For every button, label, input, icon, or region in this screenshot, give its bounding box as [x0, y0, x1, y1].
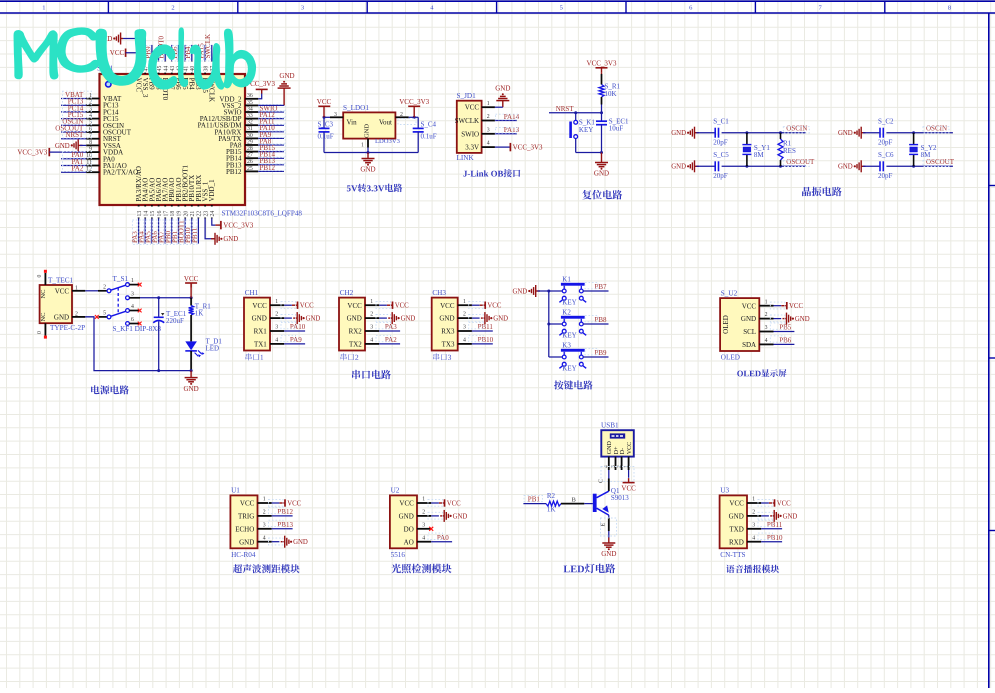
- svg-text:KEY: KEY: [579, 126, 593, 134]
- svg-text:1K: 1K: [547, 505, 556, 513]
- svg-text:15: 15: [150, 211, 156, 217]
- svg-text:GND: GND: [512, 288, 527, 295]
- svg-text:25: 25: [247, 166, 253, 172]
- svg-text:VCC: VCC: [440, 302, 455, 310]
- svg-text:2: 2: [765, 312, 768, 318]
- svg-text:0.1uF: 0.1uF: [421, 133, 437, 141]
- svg-text:26: 26: [247, 159, 253, 165]
- svg-text:3: 3: [752, 522, 755, 528]
- svg-text:TRIG: TRIG: [238, 513, 254, 521]
- svg-text:VCC: VCC: [252, 302, 267, 310]
- svg-text:1: 1: [370, 299, 373, 305]
- svg-text:1: 1: [42, 5, 45, 12]
- svg-text:SWCLK: SWCLK: [455, 117, 480, 125]
- svg-text:1K: 1K: [195, 310, 204, 318]
- svg-text:2: 2: [487, 114, 490, 120]
- svg-text:GND: GND: [184, 385, 199, 393]
- svg-text:4: 4: [370, 338, 373, 344]
- svg-text:RX3: RX3: [441, 328, 455, 336]
- svg-text:1: 1: [765, 299, 768, 305]
- svg-text:PA3: PA3: [385, 323, 397, 331]
- svg-text:35: 35: [247, 100, 253, 106]
- svg-text:19: 19: [177, 211, 183, 217]
- svg-text:Vout: Vout: [379, 119, 392, 127]
- svg-text:PB11: PB11: [478, 323, 494, 331]
- svg-text:K1: K1: [562, 275, 571, 283]
- svg-text:LDO3V3: LDO3V3: [375, 138, 401, 145]
- svg-text:1: 1: [752, 497, 755, 503]
- svg-text:38: 38: [203, 66, 209, 72]
- svg-text:44: 44: [163, 66, 169, 72]
- svg-text:0: 0: [37, 275, 43, 278]
- svg-text:0.1uF: 0.1uF: [318, 133, 334, 141]
- svg-text:GND: GND: [239, 538, 254, 546]
- svg-text:PA9: PA9: [290, 336, 302, 344]
- svg-text:OLED: OLED: [721, 354, 740, 362]
- svg-text:PA2/TX/AO: PA2/TX/AO: [103, 169, 138, 177]
- svg-text:3: 3: [131, 291, 134, 297]
- svg-text:43: 43: [170, 66, 176, 72]
- svg-text:PA2: PA2: [385, 336, 397, 344]
- svg-text:28: 28: [247, 146, 253, 152]
- svg-text:GND: GND: [783, 513, 798, 520]
- svg-text:10K: 10K: [605, 90, 617, 98]
- svg-text:1: 1: [263, 497, 266, 503]
- svg-text:C: C: [598, 479, 604, 483]
- svg-text:GND: GND: [495, 85, 510, 93]
- svg-text:2: 2: [752, 510, 755, 516]
- svg-text:3: 3: [275, 325, 278, 331]
- svg-text:2: 2: [263, 510, 266, 516]
- svg-text:U1: U1: [231, 487, 240, 495]
- svg-text:NC: NC: [40, 312, 47, 321]
- svg-text:3: 3: [370, 325, 373, 331]
- svg-text:20pF: 20pF: [878, 139, 893, 147]
- svg-text:T_S1: T_S1: [113, 275, 129, 283]
- svg-text:GND: GND: [741, 315, 756, 323]
- svg-text:OSCOUT: OSCOUT: [786, 158, 815, 166]
- svg-text:1: 1: [422, 497, 425, 503]
- svg-text:PB12: PB12: [277, 508, 293, 516]
- svg-text:SWIO: SWIO: [461, 130, 479, 138]
- svg-text:34: 34: [247, 106, 253, 112]
- svg-text:33: 33: [247, 113, 253, 119]
- svg-text:TXD: TXD: [729, 525, 743, 533]
- svg-text:20: 20: [183, 211, 189, 217]
- svg-text:NRST: NRST: [556, 105, 575, 113]
- svg-text:VCC_3V3: VCC_3V3: [17, 149, 47, 157]
- svg-text:S_C6: S_C6: [878, 151, 894, 159]
- svg-text:KEY: KEY: [562, 299, 576, 307]
- svg-text:3: 3: [487, 127, 490, 133]
- svg-text:4: 4: [422, 535, 425, 541]
- svg-text:PB7: PB7: [595, 283, 608, 291]
- svg-text:3.3V: 3.3V: [465, 144, 479, 152]
- svg-text:2: 2: [103, 284, 106, 290]
- svg-text:S_U2: S_U2: [721, 289, 738, 297]
- svg-text:LINK: LINK: [457, 154, 475, 162]
- svg-text:STM32F103C8T6_LQFP48: STM32F103C8T6_LQFP48: [222, 210, 303, 218]
- svg-text:S_C2: S_C2: [878, 118, 894, 126]
- svg-text:8M: 8M: [754, 151, 765, 159]
- svg-text:GND: GND: [347, 315, 362, 323]
- svg-text:S_KF1 DIP-8X8: S_KF1 DIP-8X8: [113, 325, 162, 333]
- svg-text:ECHO: ECHO: [235, 525, 254, 533]
- svg-text:VCC: VCC: [184, 275, 199, 283]
- svg-text:D-: D-: [620, 448, 626, 454]
- svg-text:K2: K2: [562, 308, 571, 316]
- svg-text:D+: D+: [614, 446, 620, 454]
- svg-text:23: 23: [203, 211, 209, 217]
- svg-text:GND: GND: [293, 539, 308, 546]
- svg-text:VCC: VCC: [347, 302, 362, 310]
- svg-text:GND: GND: [838, 130, 853, 137]
- svg-text:2: 2: [422, 510, 425, 516]
- svg-text:4: 4: [131, 304, 134, 310]
- svg-text:VCC: VCC: [287, 500, 301, 507]
- svg-text:U2: U2: [391, 487, 400, 495]
- svg-text:S_C4: S_C4: [421, 121, 437, 129]
- svg-text:14: 14: [143, 211, 149, 217]
- svg-text:3: 3: [422, 522, 425, 528]
- svg-text:GND: GND: [594, 170, 609, 178]
- svg-text:GND: GND: [401, 316, 416, 323]
- svg-text:VCC_3V3: VCC_3V3: [587, 60, 617, 68]
- svg-text:CH1: CH1: [245, 289, 259, 297]
- svg-text:21: 21: [190, 211, 196, 217]
- svg-text:4: 4: [263, 535, 266, 541]
- svg-text:2: 2: [463, 312, 466, 318]
- svg-text:HC-R04: HC-R04: [231, 551, 256, 559]
- svg-text:VCC: VCC: [742, 302, 757, 310]
- svg-text:T_TEC1: T_TEC1: [48, 276, 74, 284]
- svg-text:PB12: PB12: [226, 168, 242, 176]
- svg-text:VCC: VCC: [317, 98, 332, 106]
- svg-text:10uF: 10uF: [609, 125, 624, 133]
- svg-text:0: 0: [37, 331, 43, 334]
- svg-text:KEY: KEY: [562, 332, 576, 340]
- svg-text:GND: GND: [439, 315, 454, 323]
- svg-text:VCC: VCC: [447, 500, 461, 507]
- svg-text:GND: GND: [223, 236, 238, 243]
- svg-text:1: 1: [361, 143, 364, 149]
- svg-text:8: 8: [89, 140, 92, 146]
- svg-text:31: 31: [247, 126, 253, 132]
- svg-text:3: 3: [765, 325, 768, 331]
- svg-text:VCC_3V3: VCC_3V3: [399, 98, 429, 106]
- svg-text:NC: NC: [40, 289, 47, 298]
- svg-text:GND: GND: [363, 124, 370, 138]
- svg-text:4: 4: [463, 338, 466, 344]
- svg-text:VCC: VCC: [627, 442, 633, 454]
- svg-text:RES: RES: [783, 147, 796, 155]
- svg-text:GND: GND: [306, 316, 321, 323]
- svg-text:16: 16: [157, 211, 163, 217]
- svg-text:USB1: USB1: [601, 422, 619, 430]
- svg-text:B: B: [572, 496, 577, 503]
- svg-text:3: 3: [463, 325, 466, 331]
- svg-text:GND: GND: [360, 166, 375, 174]
- svg-text:VCC: VCC: [399, 500, 414, 508]
- svg-text:22: 22: [197, 211, 203, 217]
- svg-text:LED: LED: [206, 345, 220, 353]
- svg-text:Vin: Vin: [347, 119, 358, 127]
- svg-text:VCC: VCC: [300, 303, 314, 310]
- svg-text:VCC_3V3: VCC_3V3: [223, 222, 253, 230]
- svg-text:PB10: PB10: [767, 534, 783, 542]
- svg-text:CH2: CH2: [340, 289, 354, 297]
- svg-text:5516: 5516: [391, 551, 406, 559]
- svg-text:RXD: RXD: [729, 538, 744, 546]
- svg-text:TX3: TX3: [442, 341, 455, 349]
- svg-text:VCC: VCC: [487, 303, 501, 310]
- svg-text:GND: GND: [671, 130, 686, 137]
- svg-text:PA0: PA0: [437, 534, 449, 542]
- svg-text:OSCIN: OSCIN: [926, 125, 947, 133]
- svg-text:VCC: VCC: [777, 500, 791, 507]
- svg-text:PB1: PB1: [528, 495, 541, 503]
- svg-text:PA10: PA10: [290, 323, 306, 331]
- svg-text:GND: GND: [493, 316, 508, 323]
- svg-text:CH3: CH3: [432, 289, 446, 297]
- svg-text:GND: GND: [54, 313, 69, 321]
- svg-text:VCC: VCC: [110, 49, 125, 57]
- svg-text:2: 2: [171, 5, 174, 12]
- svg-text:20pF: 20pF: [878, 172, 893, 180]
- svg-text:30: 30: [247, 133, 253, 139]
- svg-text:GND: GND: [729, 513, 744, 521]
- svg-text:27: 27: [247, 153, 253, 159]
- svg-text:S_C5: S_C5: [713, 151, 729, 159]
- svg-text:PB11: PB11: [767, 521, 783, 529]
- svg-text:29: 29: [247, 139, 253, 145]
- svg-text:32: 32: [247, 120, 253, 126]
- svg-text:PB8: PB8: [595, 316, 608, 324]
- svg-text:S_C3: S_C3: [318, 121, 334, 129]
- svg-text:VCC: VCC: [789, 303, 803, 310]
- svg-text:13: 13: [137, 211, 143, 217]
- svg-text:GND: GND: [55, 143, 70, 150]
- svg-text:3: 3: [301, 5, 304, 12]
- svg-text:6: 6: [131, 317, 134, 323]
- svg-text:VCC_3V3: VCC_3V3: [513, 144, 543, 152]
- svg-text:GND: GND: [279, 72, 294, 80]
- svg-text:2: 2: [370, 312, 373, 318]
- svg-text:VCC: VCC: [240, 500, 255, 508]
- svg-text:GND: GND: [671, 164, 686, 171]
- svg-text:PB5: PB5: [779, 324, 792, 332]
- svg-text:41: 41: [183, 66, 189, 72]
- svg-text:3: 3: [263, 522, 266, 528]
- svg-text:1: 1: [275, 299, 278, 305]
- svg-text:PB13: PB13: [277, 521, 293, 529]
- svg-text:220uF: 220uF: [166, 317, 184, 325]
- svg-text:PB9: PB9: [595, 349, 608, 357]
- svg-text:4: 4: [275, 338, 278, 344]
- svg-text:4: 4: [765, 338, 768, 344]
- svg-text:4: 4: [752, 535, 755, 541]
- svg-text:VCC: VCC: [395, 303, 409, 310]
- svg-text:K3: K3: [562, 341, 571, 349]
- svg-text:SDA: SDA: [742, 341, 756, 349]
- svg-text:RX1: RX1: [254, 328, 268, 336]
- svg-text:8: 8: [948, 5, 951, 12]
- svg-text:E: E: [600, 523, 606, 527]
- svg-text:20pF: 20pF: [713, 172, 728, 180]
- svg-text:TX2: TX2: [349, 341, 362, 349]
- svg-text:GND: GND: [453, 513, 468, 520]
- svg-text:1: 1: [463, 299, 466, 305]
- svg-text:U3: U3: [720, 487, 729, 495]
- svg-text:GND: GND: [601, 550, 616, 558]
- svg-text:S_LDO1: S_LDO1: [343, 104, 369, 112]
- svg-text:KEY: KEY: [562, 365, 576, 373]
- svg-text:1: 1: [487, 101, 490, 107]
- svg-text:VCC: VCC: [465, 104, 480, 112]
- svg-text:S_JD1: S_JD1: [457, 92, 477, 100]
- svg-text:36: 36: [247, 93, 253, 99]
- svg-text:VDD_1: VDD_1: [208, 179, 216, 202]
- svg-text:TX1: TX1: [254, 341, 267, 349]
- svg-text:20pF: 20pF: [713, 139, 728, 147]
- svg-text:GND: GND: [838, 164, 853, 171]
- svg-text:SCL: SCL: [743, 328, 756, 336]
- svg-text:OSCIN: OSCIN: [786, 125, 807, 133]
- svg-text:5: 5: [103, 310, 106, 316]
- svg-text:5: 5: [560, 5, 563, 12]
- svg-text:TYPE-C-2P: TYPE-C-2P: [50, 324, 85, 332]
- svg-text:24: 24: [210, 211, 216, 217]
- svg-text:GND: GND: [252, 315, 267, 323]
- svg-text:RX2: RX2: [349, 328, 363, 336]
- svg-text:S_C1: S_C1: [713, 118, 729, 126]
- svg-text:CN-TTS: CN-TTS: [720, 551, 745, 559]
- svg-text:4: 4: [487, 141, 490, 147]
- svg-text:OLED: OLED: [722, 315, 730, 334]
- svg-text:GND: GND: [399, 513, 414, 521]
- svg-text:R2: R2: [547, 492, 556, 500]
- svg-text:GND: GND: [795, 316, 810, 323]
- svg-text:17: 17: [163, 211, 169, 217]
- svg-text:AO: AO: [404, 538, 414, 546]
- svg-text:VCC: VCC: [729, 500, 744, 508]
- svg-text:S9013: S9013: [611, 494, 629, 502]
- svg-text:1: 1: [131, 278, 134, 284]
- svg-text:45: 45: [157, 66, 163, 72]
- svg-text:VCC: VCC: [55, 287, 70, 295]
- svg-text:OSCOUT: OSCOUT: [926, 158, 955, 166]
- svg-text:DO: DO: [404, 525, 414, 533]
- svg-text:18: 18: [170, 211, 176, 217]
- svg-text:PB6: PB6: [779, 337, 792, 345]
- svg-text:GND: GND: [607, 441, 613, 455]
- svg-text:2: 2: [275, 312, 278, 318]
- svg-text:PB10: PB10: [478, 336, 494, 344]
- svg-text:VCC: VCC: [621, 485, 636, 493]
